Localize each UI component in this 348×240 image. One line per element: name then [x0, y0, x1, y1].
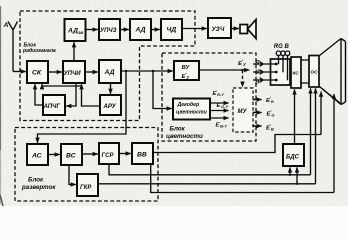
wire ВУ out E'y: [199, 69, 249, 71]
wire БДС to КС: [294, 89, 296, 144]
svg-text:RG B: RG B: [274, 44, 290, 50]
wire ВС to ГКР: [69, 165, 76, 185]
wire АДзв to УПЧЗ: [86, 29, 98, 31]
wire ГСР to БДС: [289, 167, 291, 174]
antenna A: [8, 22, 18, 72]
wire АС to ВС: [48, 154, 60, 156]
node МУ output junctions: [253, 99, 255, 101]
block УЗЧ: [208, 18, 231, 38]
wire АД to ВУ: [121, 70, 173, 72]
wire ГСР bus to ОС: [109, 88, 311, 174]
svg-text:АПЧГ: АПЧГ: [43, 104, 61, 110]
scan edge artifact left: [0, 6, 2, 150]
svg-text:ВУ: ВУ: [182, 65, 191, 71]
svg-text:АД: АД: [104, 69, 115, 76]
block ОС deflection yoke: [309, 56, 319, 88]
dashed box Блок разверток: [15, 128, 158, 202]
node ГКР to БДС: [296, 183, 298, 185]
wire АД to ЧД: [151, 29, 160, 31]
wire АРУ to УПЧИ: [82, 84, 101, 106]
wire ЧД to УЗЧ: [182, 28, 207, 30]
heater coil G: [281, 51, 286, 56]
wire gun input R: [253, 62, 276, 67]
svg-text:G: G: [255, 70, 260, 76]
heater coil R: [276, 51, 281, 56]
heater coil B: [285, 51, 290, 56]
wire СК to УПЧИ: [48, 71, 62, 73]
wire УПЧЗ to АД sound: [120, 29, 129, 31]
block АД video: [99, 60, 121, 83]
wire ГКР bus to ОС: [98, 88, 316, 183]
wire video to Декодер: [153, 71, 172, 109]
block АРУ: [100, 95, 121, 115]
block ГКР: [77, 174, 98, 196]
block УПЧЗ: [99, 19, 120, 40]
wire antenna to СК: [13, 71, 26, 73]
block ВВ: [132, 143, 153, 164]
block Декодер цветности: [173, 99, 210, 120]
svg-text:КС: КС: [293, 71, 300, 76]
block БДС: [283, 144, 304, 166]
block СК: [27, 61, 48, 83]
svg-text:МУ: МУ: [238, 109, 248, 115]
wire Декодер to МУ E'B-Y: [210, 117, 229, 119]
CRT funnel: [320, 39, 346, 105]
svg-text:БДС: БДС: [286, 154, 300, 160]
svg-text:Блок: Блок: [170, 126, 186, 133]
svg-text:АС: АС: [31, 153, 42, 160]
wire ГСР to ВВ: [119, 153, 131, 155]
wire gun input B: [253, 78, 276, 83]
wire ВС to ГСР: [82, 153, 98, 155]
wire Декодер to МУ E'G-Y: [210, 110, 229, 112]
wire АРУ to СК: [42, 84, 82, 86]
wire gun input G: [253, 70, 276, 75]
CRT neck rails: [302, 60, 310, 83]
block АД sound: [130, 19, 151, 40]
svg-text:УЗЧ: УЗЧ: [212, 26, 225, 33]
speaker: [240, 25, 248, 34]
svg-text:ВС: ВС: [66, 153, 76, 160]
svg-text:цветности: цветности: [166, 133, 203, 140]
svg-text:УПЧИ: УПЧИ: [64, 71, 82, 77]
CRT inner bottom edge: [323, 89, 341, 103]
svg-text:ГСР: ГСР: [102, 153, 115, 159]
block ВУ: [174, 61, 199, 80]
svg-text:разверток: разверток: [21, 184, 56, 191]
svg-text:ГКР: ГКР: [80, 185, 92, 191]
svg-text:ОС: ОС: [311, 70, 319, 75]
wire video to АС: [38, 71, 127, 143]
node video line branch 2: [152, 70, 154, 72]
wire Декодер to МУ E'R-Y: [210, 102, 229, 104]
wire E'y to МУ dashed: [242, 70, 244, 87]
wire УЗЧ to speaker: [231, 28, 239, 30]
block ГСР: [99, 143, 119, 164]
wire УПЧИ to АПЧГ: [66, 83, 76, 106]
svg-text:Блок: Блок: [28, 177, 44, 184]
wire МУ out E'B: [253, 125, 262, 127]
svg-text:АД: АД: [135, 27, 146, 34]
svg-text:цветности: цветности: [176, 110, 208, 116]
wire МУ out E'G: [253, 112, 262, 114]
wire АД to АРУ: [110, 83, 112, 94]
block ЧД: [161, 19, 182, 40]
wire ГКР to БДС: [296, 167, 298, 183]
block КС convergence coils: [291, 57, 301, 88]
wire МУ out E'R: [253, 99, 262, 101]
svg-text:А: А: [3, 22, 9, 29]
node E'y branch: [241, 69, 243, 71]
wire АПЧГ to СК: [35, 84, 43, 105]
wire ВВ bottom bus: [151, 94, 334, 193]
svg-text:B: B: [255, 80, 259, 86]
wire УПЧИ to АД: [85, 71, 98, 73]
wire ВВ to CRT anode: [153, 92, 321, 153]
dashed box Блок радиоканала (L-shape): [20, 11, 195, 121]
svg-text:УПЧЗ: УПЧЗ: [100, 28, 117, 34]
dashed box Блок цветности: [162, 53, 256, 141]
svg-text:СК: СК: [32, 70, 42, 77]
block ВС: [61, 144, 82, 165]
block УПЧИ: [63, 61, 85, 83]
block АДзв: [65, 19, 86, 41]
svg-text:ЧД: ЧД: [167, 27, 177, 34]
node ГСР to БДС: [289, 174, 291, 176]
kinescope gun box: [271, 59, 291, 85]
svg-text:Декодер: Декодер: [177, 102, 200, 108]
svg-text:АРУ: АРУ: [103, 104, 117, 110]
svg-text:радиоканала: радиоканала: [22, 48, 56, 54]
node video line branch 1: [125, 70, 127, 72]
block АС: [27, 144, 48, 165]
block МУ dashed: [233, 88, 253, 132]
block АПЧГ: [43, 95, 65, 115]
svg-text:ВВ: ВВ: [137, 152, 147, 159]
wire УПЧИ to АДзв: [73, 42, 75, 61]
